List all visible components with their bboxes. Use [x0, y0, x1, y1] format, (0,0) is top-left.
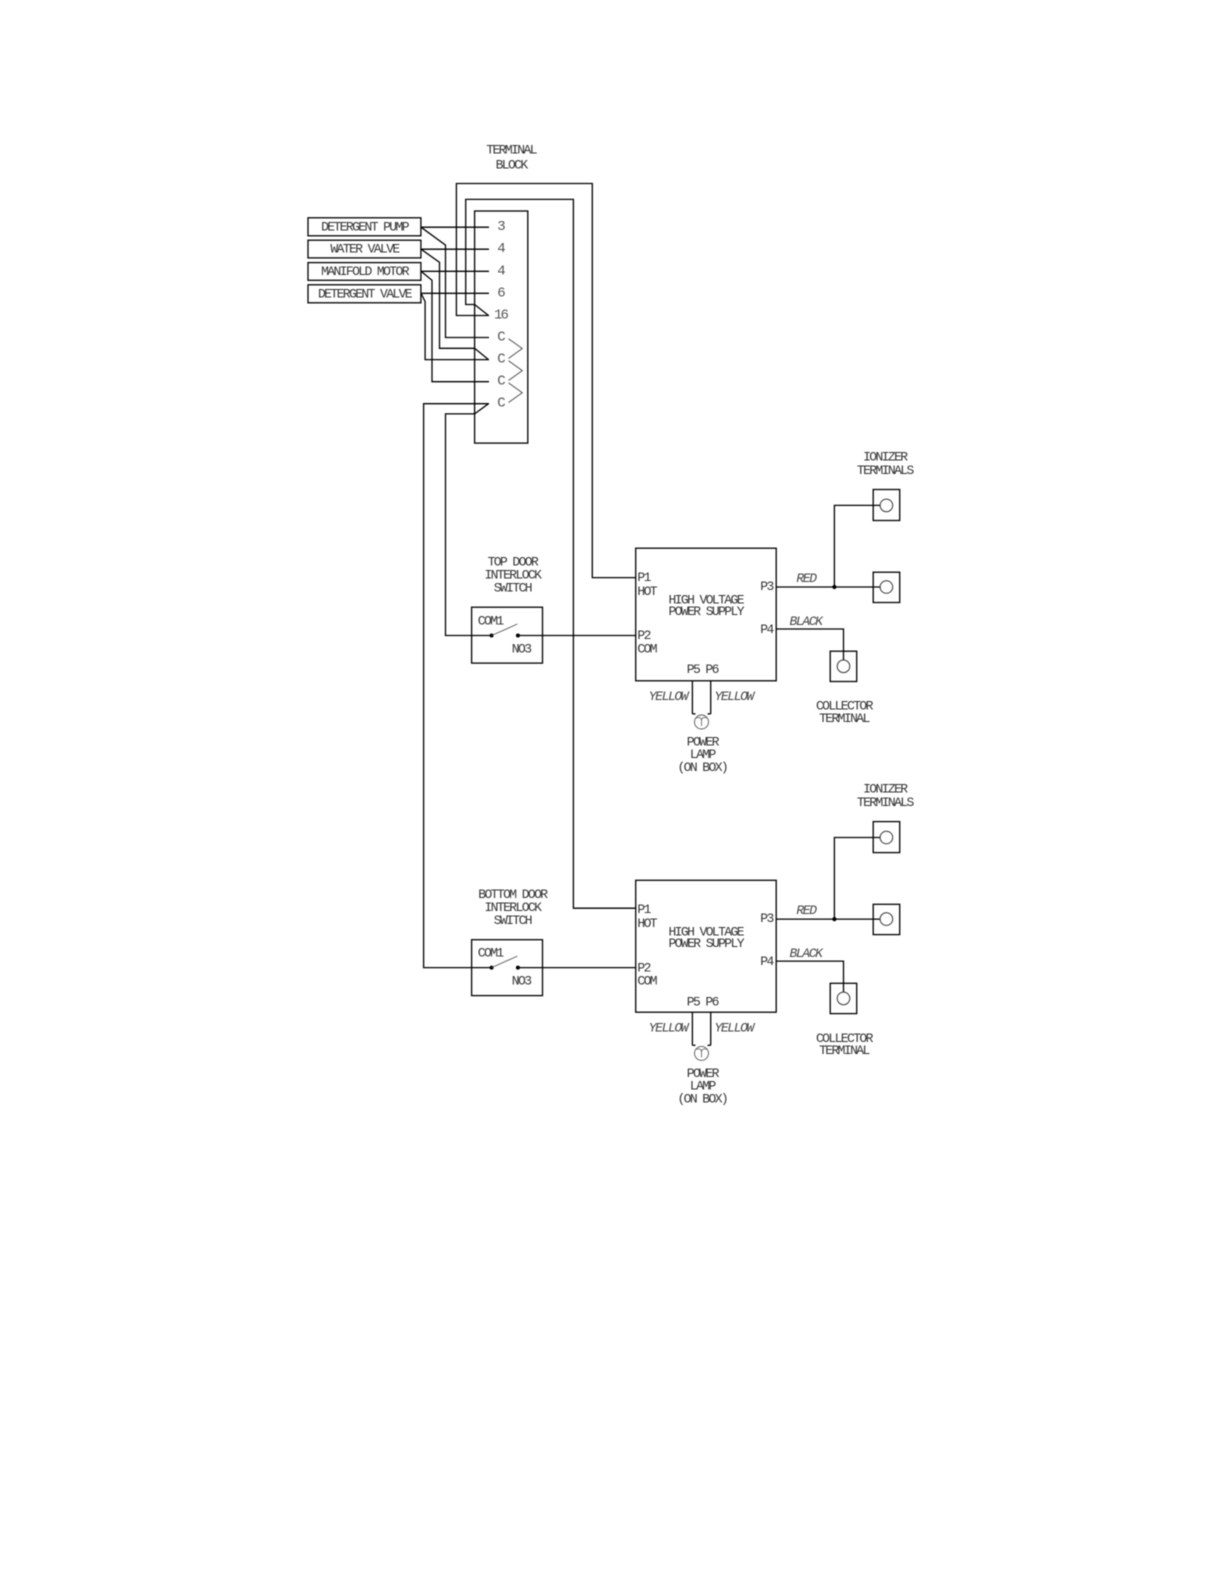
svg-text:TERMINAL: TERMINAL: [819, 711, 869, 726]
svg-text:HOT: HOT: [637, 916, 657, 931]
svg-text:COM1: COM1: [478, 946, 505, 961]
svg-text:P1: P1: [637, 570, 651, 585]
svg-text:SWITCH: SWITCH: [494, 913, 532, 928]
svg-text:P5 P6: P5 P6: [687, 994, 719, 1009]
svg-text:TERMINAL: TERMINAL: [486, 143, 536, 158]
svg-text:POWER SUPPLY: POWER SUPPLY: [668, 936, 744, 951]
svg-text:P1: P1: [637, 902, 651, 917]
svg-text:TERMINAL: TERMINAL: [819, 1043, 869, 1058]
svg-text:RED: RED: [796, 571, 817, 586]
svg-text:WATER VALVE: WATER VALVE: [330, 242, 400, 257]
svg-text:(ON BOX): (ON BOX): [677, 760, 727, 775]
svg-text:YELLOW: YELLOW: [714, 1020, 755, 1035]
svg-text:YELLOW: YELLOW: [649, 1020, 690, 1035]
svg-text:YELLOW: YELLOW: [649, 689, 690, 704]
svg-text:BLACK: BLACK: [789, 614, 824, 629]
svg-text:COM: COM: [637, 973, 656, 988]
svg-text:RED: RED: [796, 903, 817, 918]
svg-text:P3: P3: [760, 579, 773, 594]
svg-text:COM1: COM1: [478, 613, 505, 628]
svg-text:POWER SUPPLY: POWER SUPPLY: [668, 604, 744, 619]
svg-text:MANIFOLD MOTOR: MANIFOLD MOTOR: [321, 264, 410, 279]
svg-text:DETERGENT VALVE: DETERGENT VALVE: [318, 286, 413, 301]
svg-text:SWITCH: SWITCH: [494, 581, 532, 596]
svg-text:BLACK: BLACK: [789, 946, 824, 961]
svg-text:NO3: NO3: [512, 974, 531, 989]
svg-text:NO3: NO3: [512, 642, 531, 657]
svg-text:YELLOW: YELLOW: [714, 689, 755, 704]
svg-text:COM: COM: [637, 641, 656, 656]
svg-text:DETERGENT PUMP: DETERGENT PUMP: [321, 219, 410, 234]
svg-text:P4: P4: [760, 954, 774, 969]
svg-text:16: 16: [494, 308, 509, 324]
svg-text:P3: P3: [760, 911, 773, 926]
svg-text:P4: P4: [760, 622, 774, 637]
svg-text:(ON BOX): (ON BOX): [677, 1091, 727, 1106]
svg-text:HOT: HOT: [637, 584, 657, 599]
svg-text:P5 P6: P5 P6: [687, 662, 719, 677]
svg-text:TERMINALS: TERMINALS: [857, 795, 915, 810]
svg-text:TERMINALS: TERMINALS: [857, 463, 915, 478]
svg-text:BLOCK: BLOCK: [496, 158, 529, 173]
